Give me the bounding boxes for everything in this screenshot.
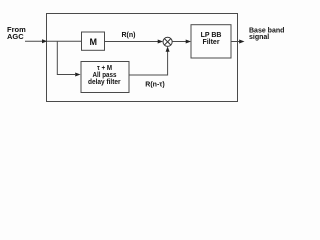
svg-text:LP BB: LP BB bbox=[201, 32, 222, 39]
svg-text:M: M bbox=[90, 37, 98, 47]
net label R(n) bbox=[122, 32, 136, 39]
label: From AGC bbox=[7, 25, 26, 41]
label: Base band signal bbox=[249, 28, 284, 42]
wire multiplier to LP BB filter bbox=[172, 40, 191, 44]
svg-text:All pass: All pass bbox=[93, 72, 117, 79]
svg-text:R(n): R(n) bbox=[122, 32, 136, 39]
wire delay filter to multiplier bbox=[129, 46, 170, 75]
svg-text:signal: signal bbox=[249, 34, 269, 41]
svg-text:delay filter: delay filter bbox=[88, 79, 121, 86]
svg-text:Filter: Filter bbox=[202, 39, 219, 46]
svg-text:AGC: AGC bbox=[7, 32, 24, 41]
block M bbox=[82, 32, 105, 50]
svg-text:R(n-τ): R(n-τ) bbox=[145, 82, 164, 89]
output wire to base band signal bbox=[231, 40, 245, 44]
block tau+M all pass delay filter bbox=[81, 62, 129, 93]
multiplier node U1 (mixer) bbox=[163, 37, 172, 46]
input wire from AGC bbox=[25, 39, 47, 43]
wire M to multiplier bbox=[105, 40, 164, 44]
wire branch down to all pass delay filter bbox=[57, 41, 80, 76]
outer system boundary box bbox=[47, 14, 238, 102]
net label R(n-tau) bbox=[145, 82, 164, 89]
block LP BB Filter bbox=[191, 25, 231, 58]
wire AGC to block M bbox=[47, 40, 82, 42]
